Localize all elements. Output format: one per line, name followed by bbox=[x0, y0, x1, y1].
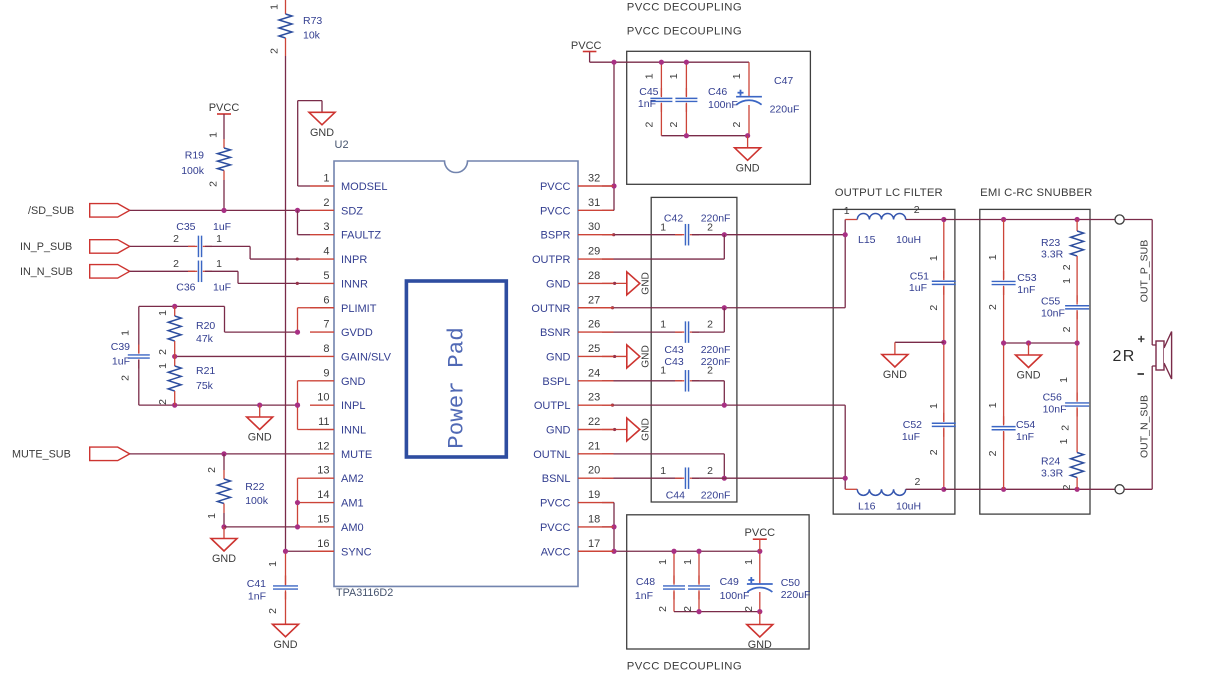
svg-text:2: 2 bbox=[987, 450, 999, 456]
svg-text:1: 1 bbox=[157, 310, 169, 316]
svg-text:C55: C55 bbox=[1041, 296, 1060, 308]
svg-text:2: 2 bbox=[1061, 484, 1073, 490]
svg-text:2: 2 bbox=[173, 233, 179, 245]
svg-text:GND: GND bbox=[212, 553, 236, 565]
svg-text:2: 2 bbox=[1059, 425, 1071, 431]
svg-text:1: 1 bbox=[682, 559, 694, 565]
svg-text:PVCC: PVCC bbox=[540, 522, 571, 534]
svg-text:17: 17 bbox=[588, 538, 600, 550]
svg-text:BSNL: BSNL bbox=[542, 473, 571, 485]
svg-text:28: 28 bbox=[588, 270, 600, 282]
svg-text:AM1: AM1 bbox=[341, 498, 364, 510]
svg-text:1uF: 1uF bbox=[902, 431, 920, 443]
svg-text:OUTPR: OUTPR bbox=[532, 254, 571, 266]
svg-text:22: 22 bbox=[588, 416, 600, 428]
svg-text:INNR: INNR bbox=[341, 278, 368, 290]
svg-text:2: 2 bbox=[206, 467, 218, 473]
svg-text:100nF: 100nF bbox=[708, 99, 738, 111]
svg-text:27: 27 bbox=[588, 294, 600, 306]
svg-text:INPL: INPL bbox=[341, 400, 365, 412]
svg-text:1nF: 1nF bbox=[635, 590, 653, 602]
svg-text:10uH: 10uH bbox=[896, 234, 921, 246]
svg-text:1nF: 1nF bbox=[1017, 284, 1035, 296]
svg-text:1: 1 bbox=[269, 4, 281, 10]
svg-text:1: 1 bbox=[267, 561, 279, 567]
svg-text:PVCC: PVCC bbox=[540, 498, 571, 510]
svg-text:220nF: 220nF bbox=[701, 212, 731, 224]
svg-text:9: 9 bbox=[323, 367, 329, 379]
svg-text:1nF: 1nF bbox=[638, 98, 656, 110]
svg-text:C48: C48 bbox=[636, 576, 655, 588]
svg-text:TPA3116D2: TPA3116D2 bbox=[336, 587, 393, 599]
svg-text:6: 6 bbox=[323, 294, 329, 306]
svg-text:C44: C44 bbox=[666, 489, 685, 501]
svg-text:L16: L16 bbox=[858, 501, 876, 513]
svg-text:2R: 2R bbox=[1113, 348, 1136, 365]
svg-text:220nF: 220nF bbox=[701, 489, 731, 501]
svg-text:2: 2 bbox=[267, 608, 279, 614]
svg-text:GND: GND bbox=[748, 639, 772, 651]
svg-text:19: 19 bbox=[588, 489, 600, 501]
svg-text:2: 2 bbox=[707, 319, 713, 331]
svg-text:1uF: 1uF bbox=[213, 221, 231, 233]
svg-text:47k: 47k bbox=[196, 333, 214, 345]
svg-text:20: 20 bbox=[588, 465, 600, 477]
svg-text:10nF: 10nF bbox=[1041, 308, 1065, 320]
svg-text:2: 2 bbox=[173, 258, 179, 270]
svg-text:U2: U2 bbox=[335, 139, 349, 151]
svg-text:C56: C56 bbox=[1043, 392, 1062, 404]
svg-text:SYNC: SYNC bbox=[341, 546, 372, 558]
svg-text:OUT_P_SUB: OUT_P_SUB bbox=[1139, 240, 1151, 302]
svg-text:1: 1 bbox=[731, 73, 743, 79]
svg-text:PVCC DECOUPLING: PVCC DECOUPLING bbox=[627, 1, 742, 13]
svg-text:10nF: 10nF bbox=[1043, 404, 1067, 416]
svg-text:R21: R21 bbox=[196, 365, 215, 377]
svg-text:2: 2 bbox=[1061, 326, 1073, 332]
svg-text:220uF: 220uF bbox=[770, 103, 800, 115]
svg-text:PVCC: PVCC bbox=[571, 40, 602, 52]
svg-text:75k: 75k bbox=[196, 380, 214, 392]
svg-text:1: 1 bbox=[668, 73, 680, 79]
svg-text:C45: C45 bbox=[639, 86, 658, 98]
svg-text:PLIMIT: PLIMIT bbox=[341, 303, 377, 315]
svg-text:1: 1 bbox=[157, 363, 169, 369]
svg-text:2: 2 bbox=[928, 305, 940, 311]
svg-text:OUTNR: OUTNR bbox=[531, 303, 570, 315]
svg-text:C54: C54 bbox=[1016, 419, 1035, 431]
svg-text:1: 1 bbox=[743, 559, 755, 565]
svg-text:3: 3 bbox=[323, 221, 329, 233]
svg-text:C42: C42 bbox=[664, 212, 683, 224]
svg-text:/SD_SUB: /SD_SUB bbox=[28, 205, 74, 217]
svg-text:29: 29 bbox=[588, 246, 600, 258]
svg-text:MODSEL: MODSEL bbox=[341, 181, 387, 193]
svg-text:PVCC DECOUPLING: PVCC DECOUPLING bbox=[627, 661, 742, 673]
svg-text:16: 16 bbox=[317, 538, 329, 550]
svg-text:18: 18 bbox=[588, 513, 600, 525]
svg-text:R23: R23 bbox=[1041, 237, 1060, 249]
svg-text:R19: R19 bbox=[185, 150, 204, 162]
svg-text:2: 2 bbox=[987, 304, 999, 310]
svg-text:100nF: 100nF bbox=[720, 590, 750, 602]
svg-text:GND: GND bbox=[546, 278, 571, 290]
svg-text:220uF: 220uF bbox=[781, 589, 811, 601]
svg-text:3.3R: 3.3R bbox=[1041, 249, 1064, 261]
svg-text:21: 21 bbox=[588, 440, 600, 452]
svg-text:EMI C-RC SNUBBER: EMI C-RC SNUBBER bbox=[980, 187, 1092, 199]
svg-text:PVCC: PVCC bbox=[745, 527, 776, 539]
svg-text:15: 15 bbox=[317, 513, 329, 525]
svg-text:BSPR: BSPR bbox=[541, 230, 571, 242]
svg-text:1nF: 1nF bbox=[1016, 431, 1034, 443]
svg-text:GND: GND bbox=[248, 432, 272, 444]
svg-text:12: 12 bbox=[317, 440, 329, 452]
svg-text:1: 1 bbox=[660, 319, 666, 331]
svg-text:C41: C41 bbox=[247, 578, 266, 590]
svg-text:24: 24 bbox=[588, 367, 600, 379]
svg-text:C52: C52 bbox=[903, 419, 922, 431]
svg-text:SDZ: SDZ bbox=[341, 205, 363, 217]
svg-text:1: 1 bbox=[1061, 278, 1073, 284]
svg-text:1: 1 bbox=[660, 465, 666, 477]
svg-text:1: 1 bbox=[657, 559, 669, 565]
svg-text:OUTNL: OUTNL bbox=[533, 449, 570, 461]
svg-text:220nF: 220nF bbox=[701, 356, 731, 368]
svg-text:2: 2 bbox=[743, 606, 755, 612]
svg-text:C36: C36 bbox=[176, 282, 195, 294]
svg-text:2: 2 bbox=[928, 449, 940, 455]
svg-text:2: 2 bbox=[157, 349, 169, 355]
svg-text:23: 23 bbox=[588, 392, 600, 404]
svg-text:PVCC: PVCC bbox=[209, 102, 240, 114]
svg-text:1: 1 bbox=[208, 132, 220, 138]
svg-text:2: 2 bbox=[668, 122, 680, 128]
svg-text:PVCC DECOUPLING: PVCC DECOUPLING bbox=[627, 25, 742, 37]
svg-text:AVCC: AVCC bbox=[541, 546, 571, 558]
svg-text:2: 2 bbox=[157, 399, 169, 405]
svg-text:GND: GND bbox=[736, 162, 760, 174]
svg-text:13: 13 bbox=[317, 465, 329, 477]
svg-text:C43: C43 bbox=[664, 356, 683, 368]
svg-text:OUT_N_SUB: OUT_N_SUB bbox=[1139, 395, 1151, 458]
svg-text:1: 1 bbox=[644, 73, 656, 79]
svg-text:30: 30 bbox=[588, 221, 600, 233]
svg-text:5: 5 bbox=[323, 270, 329, 282]
svg-text:1: 1 bbox=[660, 364, 666, 376]
svg-text:7: 7 bbox=[323, 319, 329, 331]
svg-text:2: 2 bbox=[707, 465, 713, 477]
svg-text:1: 1 bbox=[660, 222, 666, 234]
svg-text:C51: C51 bbox=[910, 271, 929, 283]
svg-text:C47: C47 bbox=[774, 75, 793, 87]
svg-text:BSPL: BSPL bbox=[542, 376, 570, 388]
svg-text:10: 10 bbox=[317, 392, 329, 404]
svg-text:8: 8 bbox=[323, 343, 329, 355]
svg-text:OUTPL: OUTPL bbox=[534, 400, 571, 412]
svg-text:1: 1 bbox=[928, 255, 940, 261]
svg-text:GND: GND bbox=[274, 639, 298, 651]
svg-text:1: 1 bbox=[1058, 438, 1070, 444]
svg-text:AM2: AM2 bbox=[341, 473, 364, 485]
svg-text:220nF: 220nF bbox=[701, 344, 731, 356]
svg-text:10k: 10k bbox=[303, 30, 321, 42]
svg-text:4: 4 bbox=[323, 246, 329, 258]
svg-text:2: 2 bbox=[657, 606, 669, 612]
svg-text:25: 25 bbox=[588, 343, 600, 355]
svg-text:1: 1 bbox=[844, 205, 850, 217]
svg-text:1: 1 bbox=[987, 402, 999, 408]
svg-text:INNL: INNL bbox=[341, 425, 366, 437]
svg-text:32: 32 bbox=[588, 173, 600, 185]
svg-text:2: 2 bbox=[1061, 264, 1073, 270]
svg-text:2: 2 bbox=[120, 375, 132, 381]
svg-text:GND: GND bbox=[341, 376, 366, 388]
svg-text:AM0: AM0 bbox=[341, 522, 364, 534]
svg-text:1nF: 1nF bbox=[248, 591, 266, 603]
svg-text:2: 2 bbox=[644, 122, 656, 128]
svg-text:FAULTZ: FAULTZ bbox=[341, 230, 381, 242]
svg-text:GND: GND bbox=[640, 418, 651, 441]
svg-text:MUTE: MUTE bbox=[341, 449, 372, 461]
svg-text:26: 26 bbox=[588, 319, 600, 331]
svg-text:GND: GND bbox=[883, 369, 907, 381]
svg-text:2: 2 bbox=[731, 122, 743, 128]
svg-text:2: 2 bbox=[914, 476, 920, 488]
svg-text:1: 1 bbox=[928, 403, 940, 409]
svg-text:1uF: 1uF bbox=[909, 282, 927, 294]
svg-text:GND: GND bbox=[546, 425, 571, 437]
svg-text:100k: 100k bbox=[181, 165, 205, 177]
svg-text:14: 14 bbox=[317, 489, 329, 501]
svg-text:31: 31 bbox=[588, 197, 600, 209]
svg-text:2: 2 bbox=[323, 197, 329, 209]
svg-text:3.3R: 3.3R bbox=[1041, 468, 1064, 480]
svg-text:R22: R22 bbox=[245, 481, 264, 493]
svg-text:IN_P_SUB: IN_P_SUB bbox=[20, 241, 72, 253]
svg-text:1: 1 bbox=[120, 330, 132, 336]
svg-text:IN_N_SUB: IN_N_SUB bbox=[20, 266, 73, 278]
svg-text:2: 2 bbox=[269, 48, 281, 54]
svg-text:1: 1 bbox=[206, 513, 218, 519]
svg-text:2: 2 bbox=[682, 606, 694, 612]
svg-text:1uF: 1uF bbox=[213, 282, 231, 294]
svg-text:BSNR: BSNR bbox=[540, 327, 571, 339]
svg-text:2: 2 bbox=[707, 364, 713, 376]
svg-text:R73: R73 bbox=[303, 15, 322, 27]
svg-text:1: 1 bbox=[216, 233, 222, 245]
svg-text:INPR: INPR bbox=[341, 254, 367, 266]
svg-text:C50: C50 bbox=[781, 577, 800, 589]
svg-text:1: 1 bbox=[323, 173, 329, 185]
svg-text:PVCC: PVCC bbox=[540, 181, 571, 193]
svg-text:1: 1 bbox=[987, 254, 999, 260]
svg-text:OUTPUT LC FILTER: OUTPUT LC FILTER bbox=[835, 187, 943, 199]
svg-text:10uH: 10uH bbox=[896, 501, 921, 513]
svg-text:100k: 100k bbox=[245, 495, 269, 507]
svg-text:1uF: 1uF bbox=[112, 356, 130, 368]
svg-text:GND: GND bbox=[640, 272, 651, 295]
svg-text:GND: GND bbox=[310, 127, 334, 139]
svg-text:L15: L15 bbox=[858, 234, 876, 246]
svg-text:GVDD: GVDD bbox=[341, 327, 373, 339]
svg-text:GND: GND bbox=[1017, 370, 1041, 382]
svg-text:11: 11 bbox=[318, 416, 329, 428]
svg-text:C39: C39 bbox=[111, 341, 130, 353]
svg-text:C35: C35 bbox=[176, 221, 195, 233]
svg-text:Power Pad: Power Pad bbox=[444, 327, 470, 449]
svg-text:2: 2 bbox=[707, 222, 713, 234]
svg-text:MUTE_SUB: MUTE_SUB bbox=[12, 449, 71, 461]
svg-text:GND: GND bbox=[640, 345, 651, 368]
svg-text:2: 2 bbox=[914, 204, 920, 216]
svg-text:C46: C46 bbox=[708, 86, 727, 98]
svg-text:1: 1 bbox=[1058, 377, 1070, 383]
svg-text:GAIN/SLV: GAIN/SLV bbox=[341, 351, 392, 363]
svg-text:2: 2 bbox=[208, 181, 220, 187]
svg-text:R24: R24 bbox=[1041, 456, 1060, 468]
svg-text:C53: C53 bbox=[1017, 272, 1036, 284]
svg-text:R20: R20 bbox=[196, 320, 215, 332]
svg-text:GND: GND bbox=[546, 351, 571, 363]
svg-text:C43: C43 bbox=[664, 344, 683, 356]
svg-text:1: 1 bbox=[216, 258, 222, 270]
svg-text:PVCC: PVCC bbox=[540, 205, 571, 217]
svg-text:C49: C49 bbox=[720, 576, 739, 588]
